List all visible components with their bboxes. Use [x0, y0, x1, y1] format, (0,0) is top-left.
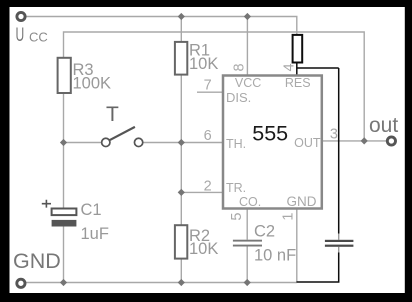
wire: R2 bottom to ground rail [180, 259, 182, 283]
svg-text:10K: 10K [189, 55, 218, 73]
wire: gray stub below right capacitor [338, 247, 340, 254]
svg-text:7: 7 [204, 77, 212, 93]
svg-text:6: 6 [204, 128, 212, 144]
switch T [102, 138, 110, 146]
wire: black RES net down right side to capacitor [338, 68, 340, 234]
node: junction dot TH/R1 [178, 139, 185, 146]
svg-text:T: T [106, 103, 119, 126]
wire: TR node to R2 top [180, 192, 182, 225]
wire: pin 8 VCC column from rail [246, 17, 248, 76]
op 555 IC body U1 [223, 76, 322, 209]
svg-text:C2: C2 [254, 223, 275, 241]
terminal out [387, 137, 395, 145]
wire: switch right lead to TH pin 6 [143, 142, 222, 144]
svg-text:10 nF: 10 nF [254, 247, 296, 265]
wire: black reset resistor bottom lead to RES pin 4 [296, 63, 298, 76]
wire: pin 7 DIS stub [197, 91, 222, 93]
node: junction dot rail/R1 [178, 13, 185, 20]
svg-text:out: out [369, 114, 398, 137]
reset capacitor (dark, unlabeled) [325, 240, 354, 242]
svg-text:10K: 10K [189, 240, 218, 258]
resistor R2 [175, 225, 187, 258]
svg-text:1uF: 1uF [81, 225, 109, 243]
svg-text:OUT: OUT [294, 136, 321, 150]
svg-text:CO.: CO. [239, 195, 261, 209]
node: junction dot rail/C1 [60, 279, 67, 286]
wire: R3-top feedback line to right drop down to OUT node [64, 32, 365, 141]
node: junction dot rail/VCC [244, 13, 251, 20]
svg-text:555: 555 [252, 122, 288, 146]
wire: C2 bottom lead to rail [246, 246, 248, 282]
svg-text:TR.: TR. [226, 181, 246, 195]
svg-text:GND: GND [13, 249, 61, 273]
svg-text:100K: 100K [73, 75, 112, 93]
wire: R1 top lead from rail [180, 17, 182, 43]
wire: R3 bottom to switch node [63, 93, 65, 143]
node: junction dot out [361, 137, 368, 144]
resistor R3 [58, 58, 71, 93]
svg-text:TH.: TH. [226, 137, 246, 151]
wire: black capacitor bottom to ground [297, 253, 339, 283]
svg-text:3: 3 [330, 126, 338, 142]
svg-text:2: 2 [204, 178, 212, 194]
wire: black RES net horizontal [297, 67, 339, 69]
node: junction dot rail/C2 [244, 279, 251, 286]
node: junction dot TR/R2 [178, 189, 185, 196]
svg-text:CC: CC [29, 29, 48, 44]
wire: C1 bottom to ground rail [63, 227, 65, 283]
svg-text:1: 1 [281, 213, 297, 221]
capacitor C2 [233, 240, 262, 242]
wire: TR node to TR pin 2 [181, 191, 222, 193]
wire: gray stub above right capacitor [338, 233, 340, 240]
svg-text:8: 8 [232, 63, 248, 71]
svg-text:4: 4 [282, 63, 298, 71]
wire: TH node down to TR node [180, 143, 182, 193]
wire: top Ucc rail from terminal to drop at black resistor [26, 17, 297, 36]
svg-text:VCC: VCC [235, 76, 261, 90]
wire: pin 5 CO lead to C2 [246, 209, 248, 240]
resistor R1 [175, 42, 187, 75]
wire: switch left lead [64, 142, 102, 144]
svg-text:U: U [16, 24, 25, 46]
wire: switch node down to C1 top [63, 143, 65, 209]
wire: R1 bottom lead to TH node [180, 75, 182, 143]
svg-text:C1: C1 [81, 201, 102, 219]
svg-text:5: 5 [229, 213, 245, 221]
svg-text:DIS.: DIS. [226, 90, 251, 105]
node: junction dot rail/R2 [178, 279, 185, 286]
capacitor C1 (electrolytic) [52, 209, 77, 216]
terminal GND [17, 279, 25, 287]
reset resistor (black, unlabeled) [293, 35, 303, 63]
wire: bottom GND rail [26, 282, 297, 284]
node: junction dot switch/R3 [60, 139, 67, 146]
wire: pin 1 GND column [296, 209, 298, 283]
terminal Ucc [17, 12, 25, 20]
wire: OUT pin 3 to out terminal [322, 140, 387, 142]
svg-text:GND: GND [287, 194, 317, 209]
svg-text:RES: RES [285, 76, 311, 90]
